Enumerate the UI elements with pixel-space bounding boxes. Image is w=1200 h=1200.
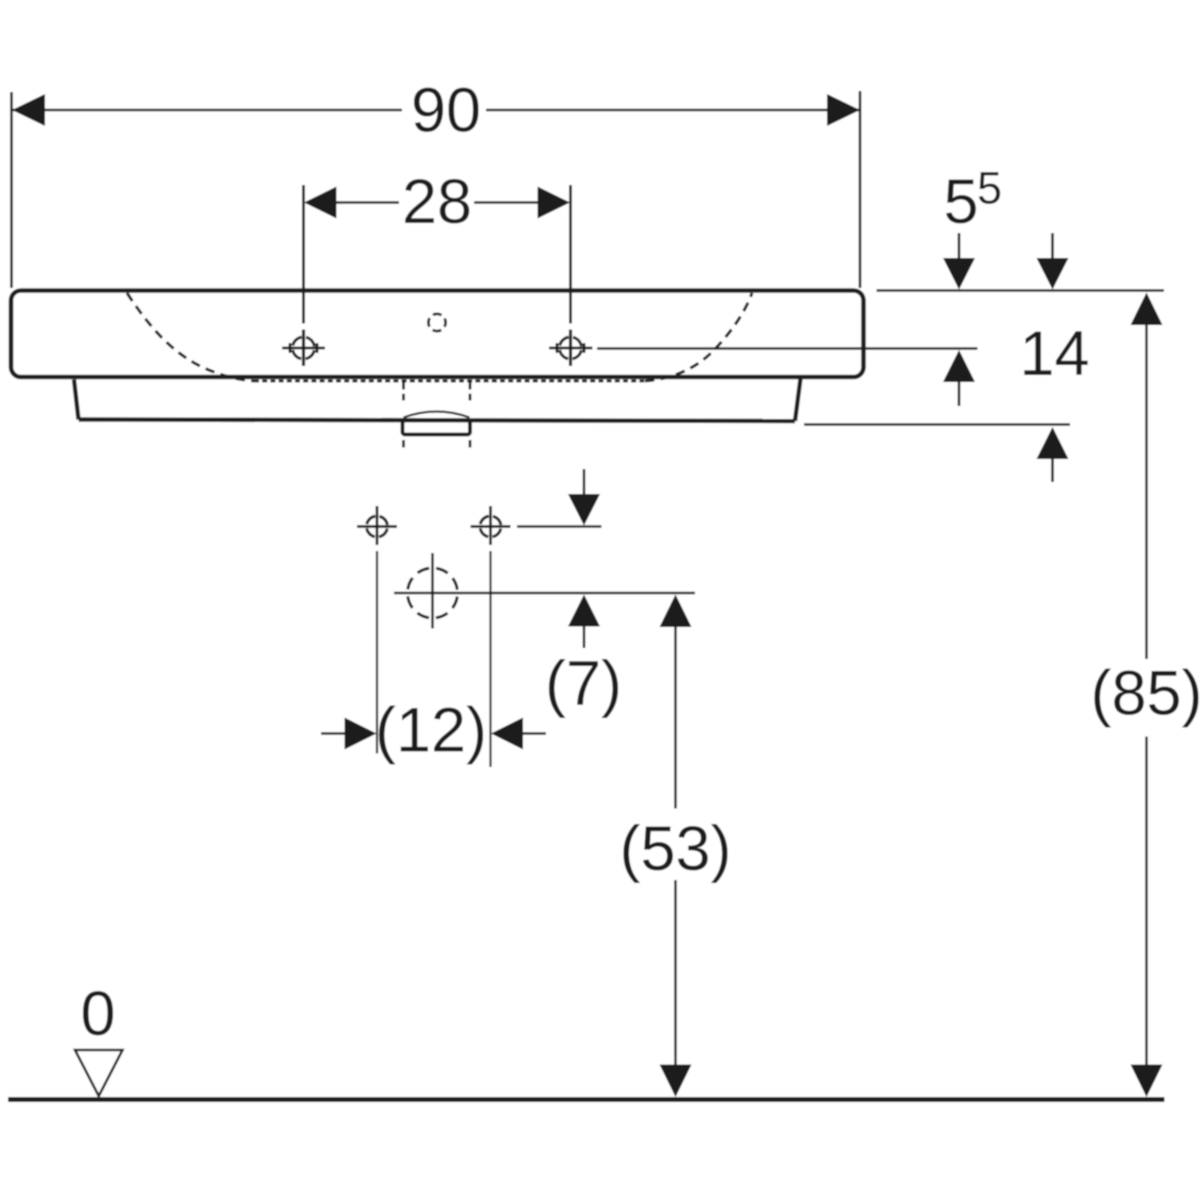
dim (85) upper arrow and line xyxy=(1131,293,1163,326)
mounting hole left centerline xyxy=(376,551,378,754)
dim 5.5 lower arrow xyxy=(943,350,975,382)
dim (53) upper arrow and line xyxy=(660,595,692,628)
dim (7) lower arrow xyxy=(568,595,600,627)
dim (7) upper arrow and reference line xyxy=(517,525,602,528)
dim 28 left arrowhead xyxy=(304,187,337,219)
dim 28 left extension line xyxy=(302,185,305,324)
drain hidden line left xyxy=(402,383,405,401)
svg-text:(85): (85) xyxy=(1090,659,1200,729)
svg-text:(7): (7) xyxy=(545,649,622,719)
dim (53) lower line and arrow xyxy=(674,880,677,1065)
pedestal left edge xyxy=(74,380,79,420)
dim (12) left arrow xyxy=(321,732,346,735)
dim 90 left extension line xyxy=(10,92,13,288)
dim 28 line left segment xyxy=(336,201,399,204)
dim 28 line right segment xyxy=(474,201,538,204)
overflow hole xyxy=(428,314,445,331)
svg-text:28: 28 xyxy=(402,167,472,237)
pedestal bottom level reference line xyxy=(804,423,1070,426)
siphon level line xyxy=(394,592,695,595)
drain hidden line right xyxy=(469,383,472,401)
mounting hole left xyxy=(357,506,397,545)
svg-text:(12): (12) xyxy=(375,696,487,766)
drain tailpiece box xyxy=(403,421,471,435)
mounting hole right centerline xyxy=(489,551,491,767)
dim (85) lower line and arrow xyxy=(1145,737,1148,1066)
svg-text:(53): (53) xyxy=(619,814,731,884)
basin interior hidden profile left curve xyxy=(127,293,254,381)
basin interior hidden right curve xyxy=(645,293,752,381)
faucet hole right xyxy=(549,330,593,367)
svg-text:90: 90 xyxy=(411,76,481,146)
faucet level reference line xyxy=(597,347,978,350)
datum triangle xyxy=(75,1050,123,1096)
dim 28 right extension line xyxy=(569,185,572,324)
pedestal right edge xyxy=(795,379,801,422)
drain flange dome xyxy=(404,412,470,418)
svg-text:0: 0 xyxy=(80,979,115,1049)
washbasin body outline xyxy=(11,291,864,378)
dim 5.5 upper arrow xyxy=(958,233,961,259)
rim level reference line xyxy=(877,289,1165,292)
dim 90 right arrowhead xyxy=(827,94,860,126)
svg-text:14: 14 xyxy=(1019,319,1089,389)
faucet hole left xyxy=(282,330,325,367)
dim 14 upper arrow xyxy=(1051,233,1054,259)
floor line xyxy=(8,1097,1165,1102)
svg-text:5: 5 xyxy=(977,163,1002,214)
dim 90 right extension line xyxy=(859,91,862,288)
basin interior hidden bottom line xyxy=(254,380,645,383)
dim 28 right arrowhead xyxy=(538,187,571,219)
pedestal bottom edge xyxy=(79,420,796,422)
dim (12) right arrow xyxy=(491,718,523,750)
mounting hole right xyxy=(471,506,511,545)
siphon hole xyxy=(408,553,458,629)
svg-text:5: 5 xyxy=(943,167,978,237)
dim 90 line left segment xyxy=(12,109,402,112)
dim 90 left arrowhead xyxy=(12,94,45,126)
dim 90 line right segment xyxy=(486,109,860,112)
dim 14 lower arrow xyxy=(1037,427,1069,459)
